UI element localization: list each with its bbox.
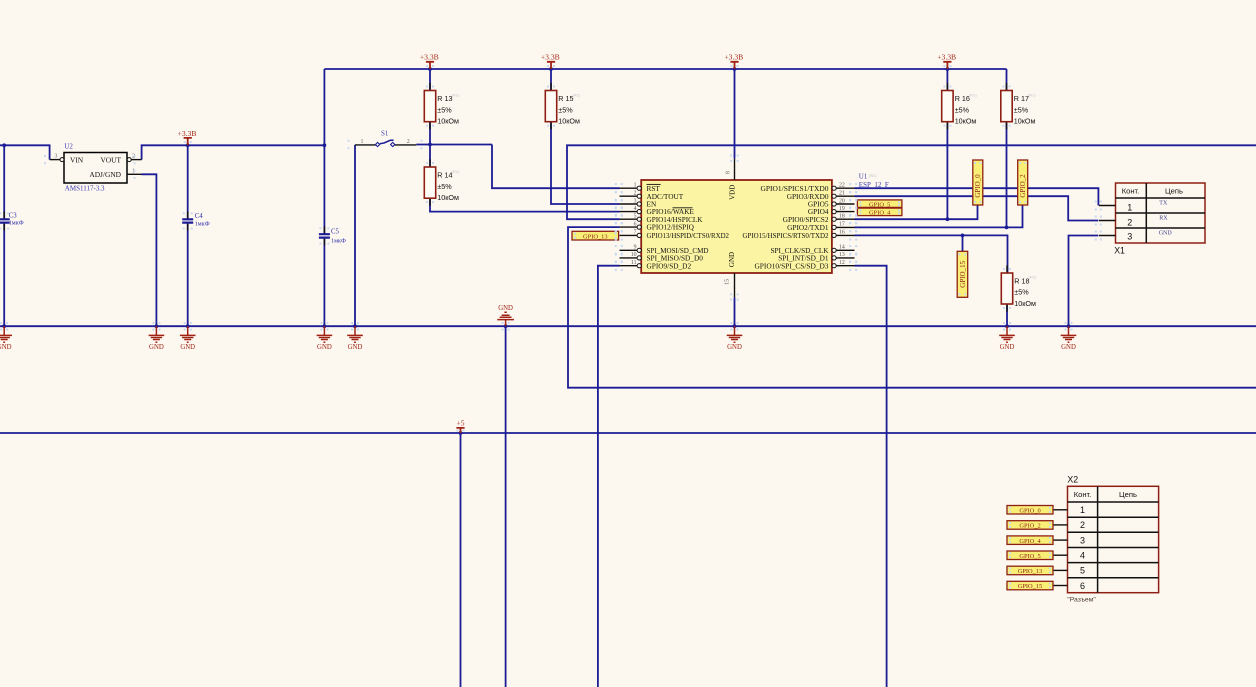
- X1 pin 1 stub: [1099, 205, 1116, 207]
- svg-text:2: 2: [1080, 520, 1085, 530]
- X2 row4 net label GPIO_5: [1007, 551, 1068, 560]
- net label GPIO_0 vertical: [973, 160, 983, 205]
- svg-text:1мкФ: 1мкФ: [9, 219, 24, 226]
- svg-text:±5%: ±5%: [1014, 288, 1029, 297]
- svg-text:Цепь: Цепь: [1119, 490, 1137, 499]
- wire GPIO14/HSPICLK net: [567, 145, 1256, 219]
- svg-text:5: 5: [1080, 566, 1085, 576]
- svg-text:+3.3B: +3.3B: [724, 53, 743, 62]
- svg-text:18: 18: [839, 214, 845, 220]
- wire GPIO12/HSPIQ net: [568, 227, 1256, 388]
- junction GND rail ADJ: [155, 324, 159, 328]
- svg-text:6: 6: [634, 221, 637, 227]
- svg-text:GPIO_4: GPIO_4: [1019, 538, 1041, 545]
- pin 7 GPIO13/HSPID/CTS0/RXD2: [620, 230, 730, 240]
- svg-text:R 14: R 14: [437, 170, 452, 179]
- svg-text:GND: GND: [348, 344, 363, 351]
- junction rail R15: [549, 67, 553, 71]
- svg-text:10: 10: [631, 252, 637, 258]
- capacitor C5: [319, 228, 346, 244]
- pin 11 GPIO9/SD_D2: [620, 260, 692, 270]
- svg-text:3: 3: [54, 154, 57, 160]
- svg-text:5: 5: [634, 214, 637, 220]
- resistor R16: [942, 91, 978, 126]
- pin 6 GPIO12/HSPIQ: [620, 221, 695, 231]
- svg-text:TX: TX: [1159, 200, 1168, 206]
- junction GND rail mid drop: [504, 324, 508, 328]
- svg-text:C3: C3: [9, 212, 18, 219]
- ground symbol above rail: [497, 312, 514, 326]
- svg-text:13: 13: [839, 252, 845, 258]
- wire C5 component leads (black): [323, 226, 325, 245]
- wire C4 bottom lead: [187, 223, 189, 327]
- resistor R14: [424, 167, 460, 202]
- svg-text:(R1): (R1): [1029, 275, 1037, 280]
- wire TXD0 to X1 pin1: [855, 188, 1099, 205]
- svg-text:GPIO10/SPI_CS/SD_D3: GPIO10/SPI_CS/SD_D3: [755, 261, 829, 270]
- svg-text:VOUT: VOUT: [100, 155, 121, 164]
- ground symbol ADJ: [149, 326, 165, 342]
- svg-text:±5%: ±5%: [558, 105, 573, 114]
- junction +3.3B / VOUT wire: [186, 143, 190, 147]
- ground symbol C5: [317, 326, 333, 342]
- svg-text:10кОм: 10кОм: [1014, 117, 1036, 126]
- svg-text:RX: RX: [1159, 215, 1168, 221]
- svg-text:1: 1: [1080, 505, 1085, 515]
- svg-text:12: 12: [839, 260, 845, 266]
- pin 10 SPI_MISO/SD_D0: [620, 252, 704, 262]
- wire GPIO2 net: [855, 205, 1023, 227]
- svg-text:VDD: VDD: [729, 185, 737, 200]
- junction GND rail C4: [186, 324, 190, 328]
- wire R18 bottom lead: [1006, 304, 1008, 326]
- pin 17 GPIO2/TXD1: [787, 222, 854, 232]
- svg-text:GND: GND: [149, 344, 164, 351]
- wire GPIO9/SD_D2 net: [598, 266, 620, 687]
- svg-text:6: 6: [1080, 581, 1085, 591]
- ground symbol C4: [180, 326, 196, 342]
- switch S1: [355, 130, 416, 147]
- pin 15 GND bottom: [725, 273, 735, 297]
- pin 1 RST: [620, 183, 661, 193]
- svg-text:10кОм: 10кОм: [558, 117, 580, 126]
- wire C3 component leads (black): [3, 212, 5, 231]
- svg-text:GND: GND: [498, 305, 513, 312]
- wire S1 pin2 to R13/R14 junction: [416, 144, 492, 146]
- svg-text:1: 1: [1127, 202, 1132, 212]
- power +5 symbol: [456, 428, 464, 433]
- resistor R17: [1001, 91, 1037, 126]
- wire R18 component leads (black): [1006, 265, 1008, 311]
- pin 13 SPI_INT/SD_D1: [778, 252, 854, 262]
- junction GND rail X1: [1067, 324, 1071, 328]
- wire R13 top lead: [429, 69, 431, 91]
- svg-text:GPIO_5: GPIO_5: [1019, 553, 1040, 560]
- svg-text:2: 2: [1127, 217, 1132, 227]
- svg-text:20: 20: [839, 198, 845, 204]
- svg-text:C5: C5: [331, 228, 340, 235]
- svg-text:VIN: VIN: [70, 155, 84, 164]
- svg-text:11: 11: [631, 260, 637, 266]
- pin 4 GPIO16/WAKE: [620, 206, 695, 216]
- connector X2 table: [1067, 475, 1158, 604]
- wire R14 component leads (black): [429, 159, 431, 206]
- wire C3 bottom lead: [3, 223, 5, 327]
- ground symbol R18: [999, 326, 1015, 342]
- svg-text:S1: S1: [381, 130, 389, 138]
- svg-text:(R1): (R1): [969, 92, 977, 97]
- svg-text:(R1): (R1): [869, 173, 877, 178]
- X1 pin 3 stub: [1099, 235, 1116, 237]
- pin 2 ADC/TOUT: [620, 191, 684, 201]
- junction C5 branch / VOUT wire: [323, 143, 327, 147]
- pin 12 GPIO10/SPI_CS/SD_D3: [755, 260, 855, 270]
- svg-text:Цепь: Цепь: [1165, 186, 1183, 195]
- svg-text:GND: GND: [1061, 344, 1076, 351]
- svg-text:±5%: ±5%: [1014, 105, 1029, 114]
- svg-text:2: 2: [634, 191, 637, 197]
- resistor R15: [545, 91, 581, 126]
- ground symbol chip: [727, 326, 743, 342]
- svg-text:Конт.: Конт.: [1122, 186, 1140, 195]
- wire R14 bottom to GPIO16/WAKE: [430, 198, 620, 211]
- pin 8 VDD top: [726, 159, 735, 180]
- pin 19 GPIO4: [808, 206, 855, 216]
- svg-text:GPIO_4: GPIO_4: [869, 210, 891, 217]
- svg-text:GPIO9/SD_D2: GPIO9/SD_D2: [647, 261, 692, 270]
- X2 row3 net label GPIO_4: [1007, 536, 1068, 545]
- wire R16 component leads (black): [946, 83, 948, 129]
- junction GND rail R18: [1005, 324, 1009, 328]
- capacitor C4: [182, 213, 210, 228]
- pin 21 GPIO3/RXD0: [787, 191, 855, 201]
- svg-text:±5%: ±5%: [955, 105, 970, 114]
- power +3.3B at regulator output: [184, 138, 192, 145]
- svg-text:10кОм: 10кОм: [1014, 299, 1036, 308]
- junction GND rail chip: [733, 324, 737, 328]
- X2 row5 net label GPIO_13: [1007, 566, 1068, 575]
- svg-text:19: 19: [839, 206, 845, 212]
- svg-text:GPIO15/HSPICS/RTS0/TXD2: GPIO15/HSPICS/RTS0/TXD2: [743, 231, 829, 240]
- resistor R13: [424, 91, 460, 126]
- wire VOUT to +3.3B rail: [142, 145, 325, 159]
- svg-text:3: 3: [1080, 535, 1085, 545]
- wire VDD: [734, 69, 736, 159]
- junction GND rail C5: [323, 324, 327, 328]
- svg-text:22: 22: [839, 183, 845, 189]
- net label GPIO_15 vertical: [957, 251, 968, 297]
- svg-text:10кОм: 10кОм: [955, 117, 977, 126]
- junction GPIO15 label lead: [961, 234, 965, 238]
- wire GND drop below rail: [505, 326, 507, 687]
- svg-text:9: 9: [634, 245, 637, 251]
- junction GND rail C3: [2, 324, 6, 328]
- svg-text:Конт.: Конт.: [1074, 490, 1092, 499]
- X2 row6 net label GPIO_15: [1007, 581, 1068, 590]
- svg-text:1мкФ: 1мкФ: [331, 237, 346, 244]
- capacitor C3: [0, 212, 24, 226]
- wire GPIO10/SD_D3 net: [855, 266, 887, 687]
- net label GPIO_2 vertical: [1018, 160, 1028, 205]
- junction R16 / GPIO0 wire: [946, 217, 950, 221]
- wire R13 component leads (black): [429, 83, 431, 129]
- svg-text:R 15: R 15: [558, 94, 573, 103]
- svg-text:21: 21: [839, 191, 845, 197]
- selection marks (tool artifact dots): [0, 65, 1102, 589]
- svg-text:U1: U1: [859, 172, 868, 180]
- svg-text:GND: GND: [1159, 230, 1173, 236]
- ground symbol S1: [347, 326, 363, 342]
- svg-text:GPIO_13: GPIO_13: [583, 233, 608, 240]
- svg-text:AMS1117-3.3: AMS1117-3.3: [65, 185, 105, 193]
- pin 3 EN: [620, 198, 657, 208]
- svg-text:4: 4: [634, 206, 637, 212]
- ground symbol C3: [0, 326, 12, 342]
- svg-text:GND: GND: [180, 344, 195, 351]
- wire RXD0 to X1 pin2: [855, 196, 1099, 220]
- svg-text:GPIO13/HSPID/CTS0/RXD2: GPIO13/HSPID/CTS0/RXD2: [647, 231, 730, 240]
- svg-text:10кОм: 10кОм: [437, 117, 459, 126]
- svg-text:C4: C4: [195, 213, 204, 220]
- svg-text:ESP_12_F: ESP_12_F: [859, 181, 889, 189]
- X2 row2 net label GPIO_2: [1007, 521, 1068, 530]
- svg-text:GND: GND: [317, 344, 332, 351]
- svg-text:(R1): (R1): [452, 92, 460, 97]
- junction rail R13: [428, 67, 432, 71]
- svg-text:GPIO_0: GPIO_0: [974, 174, 982, 198]
- wire +5 rail: [0, 432, 1256, 434]
- svg-text:+5: +5: [456, 418, 464, 427]
- junction R17 / GPIO2 wire: [1005, 226, 1009, 230]
- svg-text:15: 15: [725, 279, 731, 285]
- svg-text:1мкФ: 1мкФ: [195, 220, 210, 227]
- svg-text:GPIO_5: GPIO_5: [869, 201, 890, 208]
- svg-text:GND: GND: [728, 252, 736, 267]
- wire R17 component leads (black): [1006, 83, 1008, 129]
- net label GPIO_13: [572, 231, 619, 240]
- wire +3.3V top rail: [324, 68, 1006, 70]
- wire R16 top lead: [946, 69, 948, 91]
- power +3.3B at R13: [426, 62, 434, 69]
- pin 14 SPI_CLK/SD_CLK: [771, 245, 855, 255]
- wire R16 bottom to GPIO0 net: [946, 122, 948, 220]
- svg-text:2: 2: [407, 139, 410, 145]
- svg-text:±5%: ±5%: [437, 182, 452, 191]
- wire R17 bottom to GPIO2 net: [1006, 122, 1008, 228]
- svg-text:GPIO_15: GPIO_15: [959, 260, 967, 287]
- svg-text:R 16: R 16: [955, 94, 970, 103]
- svg-text:GPIO_2: GPIO_2: [1019, 523, 1040, 530]
- svg-text:+3.3B: +3.3B: [541, 53, 560, 62]
- connector X1 table: [1114, 183, 1205, 255]
- junction GND rail S1: [353, 324, 357, 328]
- svg-text:10кОм: 10кОм: [437, 193, 459, 202]
- svg-text:17: 17: [839, 222, 845, 228]
- wire GPIO0 net: [855, 205, 978, 219]
- svg-text:3: 3: [634, 198, 637, 204]
- wire X1 pin3 to GND: [1069, 236, 1099, 327]
- power +3.3B at VDD: [730, 62, 738, 69]
- pin 22 GPIO1/SPICS1/TXD0: [761, 183, 855, 193]
- net label GPIO_4: [857, 208, 902, 216]
- wire GPIO15 label lead: [962, 235, 964, 251]
- wire R14 top lead: [429, 145, 431, 168]
- svg-text:+3.3B: +3.3B: [420, 53, 439, 62]
- svg-text:1: 1: [634, 183, 637, 189]
- wire GND rail: [0, 325, 1256, 327]
- svg-text:ADJ/GND: ADJ/GND: [89, 170, 121, 179]
- wire C4 top lead: [187, 145, 189, 219]
- pin 18 GPIO0/SPICS2: [783, 214, 855, 224]
- junction rail VDD: [733, 67, 737, 71]
- wire GPIO15 net to R18: [855, 235, 1008, 273]
- svg-text:R 18: R 18: [1014, 276, 1029, 285]
- wire R17 top lead: [1006, 69, 1008, 91]
- wire R15 top lead: [550, 69, 552, 91]
- junction rail R16: [946, 67, 950, 71]
- svg-text:(R1): (R1): [573, 92, 581, 97]
- svg-text:4: 4: [1080, 550, 1085, 560]
- junction C3 / VIN wire: [2, 143, 6, 147]
- wire C5 bottom to GND rail: [323, 238, 325, 327]
- junction +5 rail drop: [459, 431, 463, 435]
- resistor R18: [1001, 273, 1037, 308]
- wire C3 top lead: [3, 145, 5, 219]
- junction R13/R14/S1/RST: [428, 143, 432, 147]
- svg-text:8: 8: [726, 171, 732, 174]
- svg-text:GND: GND: [0, 344, 12, 351]
- svg-text:±5%: ±5%: [437, 105, 452, 114]
- svg-text:GND: GND: [727, 344, 742, 351]
- svg-text:GPIO_13: GPIO_13: [1018, 568, 1043, 575]
- wire R15 bottom to EN: [551, 122, 620, 204]
- net label GPIO_5: [857, 200, 902, 208]
- wire ADJ/GND to ground: [142, 174, 157, 326]
- wire +3.3V drop to C5: [323, 69, 325, 234]
- wire +5 drop: [460, 433, 462, 687]
- op-amp U1 ESP_12_F module body: [641, 172, 889, 273]
- wire RST net: [492, 145, 620, 189]
- pin 20 GPIO5: [808, 198, 855, 208]
- svg-text:GPIO_0: GPIO_0: [1019, 507, 1040, 514]
- svg-text:+3.3B: +3.3B: [937, 53, 956, 62]
- svg-text:1: 1: [361, 139, 364, 145]
- svg-text:(R1): (R1): [1028, 92, 1036, 97]
- svg-text:+3.3B: +3.3B: [178, 129, 197, 138]
- svg-text:X1: X1: [1114, 245, 1125, 255]
- wire S1 pin1 to GND: [354, 145, 356, 326]
- wire R15 component leads (black): [550, 83, 552, 129]
- svg-text:R 13: R 13: [437, 94, 452, 103]
- svg-text:(R1): (R1): [452, 169, 460, 174]
- svg-text:16: 16: [839, 230, 845, 236]
- X2 row1 net label GPIO_0: [1007, 506, 1068, 515]
- svg-text:7: 7: [634, 230, 637, 236]
- wire VIN input: [0, 145, 50, 159]
- svg-text:U2: U2: [64, 143, 73, 151]
- pin 5 GPIO14/HSPICLK: [620, 214, 704, 224]
- wire C4 component leads (black): [187, 212, 189, 231]
- svg-text:X2: X2: [1067, 475, 1078, 485]
- wire chip GND pin: [734, 297, 736, 326]
- power +3.3B at R15: [547, 62, 555, 69]
- power +3.3B at R16: [943, 62, 951, 69]
- svg-text:R 17: R 17: [1014, 94, 1029, 103]
- svg-text:3: 3: [1127, 232, 1132, 242]
- svg-text:GPIO_15: GPIO_15: [1018, 583, 1043, 590]
- wire R13 bottom lead: [429, 122, 431, 145]
- svg-text:GPIO_2: GPIO_2: [1019, 174, 1027, 198]
- svg-text:"Разъем": "Разъем": [1067, 597, 1096, 604]
- regulator U2 AMS1117-3.3: [50, 143, 142, 193]
- X1 pin 2 stub: [1099, 220, 1116, 222]
- ground symbol X1: [1061, 326, 1077, 342]
- pin 16 GPIO15/HSPICS/RTS0/TXD2: [743, 230, 855, 240]
- svg-text:14: 14: [839, 245, 845, 251]
- pin 9 SPI_MOSI/SD_CMD: [620, 245, 709, 255]
- svg-text:GND: GND: [1000, 344, 1015, 351]
